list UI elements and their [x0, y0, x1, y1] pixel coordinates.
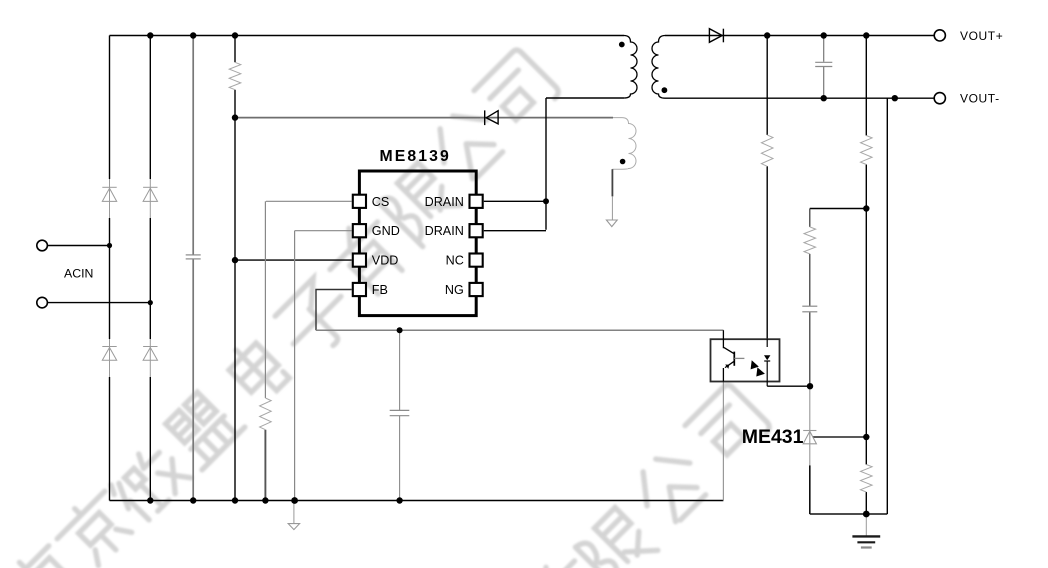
node bottom rail / startup column — [232, 497, 238, 503]
node top rail / bulk cap — [190, 32, 196, 38]
node secondary ground — [863, 511, 870, 518]
wire VOUT- return column — [886, 98, 888, 514]
wire reference cathode vertical — [809, 386, 811, 430]
wire VOUT- rail — [665, 97, 934, 99]
wire VOUT+ rail — [665, 35, 934, 37]
watermark line 2: second diagonal repeat — [516, 383, 772, 568]
svg-text:VOUT-: VOUT- — [960, 92, 1000, 106]
wire feedback divider column — [865, 36, 867, 515]
diode D3 bridge lower-left — [102, 347, 116, 361]
node bottom rail / bulk cap — [190, 497, 196, 503]
resistor R3 feedback divider upper — [861, 136, 873, 165]
transformer T1 primary winding — [624, 36, 637, 99]
svg-text:DRAIN: DRAIN — [425, 195, 464, 209]
node ACIN bottom junction — [148, 300, 153, 305]
wire drain node vertical — [545, 98, 547, 230]
svg-text:VOUT+: VOUT+ — [960, 29, 1003, 43]
wire bottom rail primary ground — [110, 500, 724, 502]
wire ACIN bottom terminal lead — [48, 302, 151, 304]
node top rail / bridge right — [147, 32, 153, 38]
resistor R2 opto bias — [761, 135, 773, 166]
node VOUT+ / divider — [863, 32, 869, 38]
pin NG — [470, 283, 483, 296]
wire thinning at bridge diodes — [108, 179, 152, 377]
wire FB compensation cap column — [399, 330, 401, 500]
diode D1 bridge upper-left — [102, 187, 116, 201]
node VOUT+ / opto bias — [764, 32, 770, 38]
transformer T1 primary phase dot — [619, 42, 625, 48]
optocoupler U2 phototransistor — [723, 330, 734, 381]
node bottom rail / IC ground — [291, 497, 298, 504]
wire startup resistor column — [234, 36, 236, 501]
wire compensation branch column — [809, 209, 811, 387]
svg-text:ACIN: ACIN — [64, 267, 93, 281]
diode D2 bridge upper-right — [143, 187, 157, 201]
wire aux supply horizontal — [235, 117, 613, 119]
terminal ACIN top — [37, 240, 48, 251]
optocoupler U2 emission arrow 2 — [756, 367, 765, 376]
svg-text:FB: FB — [372, 283, 388, 297]
node bottom rail / bridge right — [147, 497, 153, 503]
resistor R6 current sense — [260, 398, 272, 430]
pin FB — [353, 283, 366, 296]
wire opto LED cathode to reference — [767, 385, 810, 387]
wire opto emitter return — [722, 382, 724, 501]
node aux supply tap — [232, 114, 238, 120]
wire aux winding return — [611, 169, 613, 196]
capacitor C2 FB compensation — [390, 410, 410, 415]
transformer T1 auxiliary phase dot — [620, 159, 626, 165]
watermark line 1: nanjing micro one electronics text diagonal — [0, 48, 561, 568]
terminal VOUT+ — [934, 30, 945, 41]
node DRAIN junction — [543, 198, 549, 204]
wire opto LED bias column — [766, 36, 768, 340]
pin VDD — [353, 254, 366, 267]
resistor R1 startup — [229, 62, 241, 89]
node VDD tap — [232, 257, 238, 263]
diode D5 aux rectifier — [485, 110, 498, 125]
capacitor C1 bulk — [186, 255, 201, 259]
wire ME431 reference tap — [813, 436, 866, 438]
node FB cap top — [397, 327, 403, 333]
wire FB pin bend — [316, 290, 352, 331]
node divider tap — [863, 205, 869, 211]
node VOUT- / return column — [892, 95, 898, 101]
node ACIN top junction — [107, 243, 112, 248]
terminal ACIN bottom — [37, 297, 48, 308]
svg-text:NC: NC — [446, 254, 464, 268]
svg-text:NG: NG — [445, 283, 464, 297]
wire GND pin to ground rail — [295, 231, 352, 501]
wire top rail primary — [110, 35, 625, 37]
wire sense resistor lower lead — [264, 430, 266, 501]
transformer T1 auxiliary winding — [612, 118, 636, 170]
node opto cathode / reference — [807, 383, 813, 389]
wire DRAIN pin 2 — [484, 230, 546, 232]
shunt reference ME431 symbol — [803, 431, 816, 444]
svg-text:VDD: VDD — [372, 254, 399, 268]
wire second bridge column — [149, 36, 151, 501]
wire primary bottom to drain — [546, 97, 624, 99]
wire DRAIN pin 1 — [484, 200, 546, 202]
wire reference anode vertical — [809, 444, 811, 466]
IC ME8139 body — [359, 171, 476, 316]
optocoupler U2 body — [711, 339, 780, 381]
transformer T1 secondary winding — [652, 36, 665, 99]
diode D6 output rectifier — [709, 29, 723, 43]
ground arrow primary — [293, 501, 295, 524]
wire ACIN top terminal lead — [48, 245, 110, 247]
wire VDD horizontal — [235, 259, 352, 261]
node VOUT+ / output cap — [821, 32, 827, 38]
capacitor C4 compensation — [802, 306, 817, 312]
wire FB to optocoupler long run — [316, 329, 723, 331]
wire secondary ground rail — [810, 513, 888, 515]
ground arrow aux winding — [606, 220, 617, 227]
transformer T1 secondary phase dot — [662, 87, 668, 93]
wire bulk cap column — [192, 36, 194, 501]
diode D4 bridge lower-right — [143, 347, 157, 361]
pin CS — [353, 195, 366, 208]
svg-text:GND: GND — [372, 224, 400, 238]
pin NC — [470, 254, 483, 267]
pin GND — [353, 224, 366, 237]
node top rail / startup resistor — [232, 32, 238, 38]
resistor R5 feedback divider lower — [861, 465, 873, 493]
node VOUT- / output cap — [821, 95, 827, 101]
node bottom rail / FB cap — [396, 497, 402, 503]
wire CS pin to sense resistor — [265, 201, 351, 398]
wire output cap column — [823, 36, 825, 99]
svg-text:CS: CS — [372, 195, 390, 209]
optocoupler U2 base stub — [734, 357, 744, 359]
node reference cathode — [863, 434, 869, 440]
optocoupler U2 LED — [764, 339, 770, 386]
wire divider tap horizontal — [810, 208, 867, 210]
wire left bridge column — [109, 36, 111, 501]
capacitor C3 output filter — [815, 62, 832, 66]
pin DRAIN 1 — [470, 195, 483, 208]
svg-text:ME8139: ME8139 — [380, 148, 451, 165]
svg-text:DRAIN: DRAIN — [425, 224, 464, 238]
ground secondary — [865, 514, 867, 536]
svg-text:ME431: ME431 — [742, 426, 804, 448]
optocoupler U2 emission arrow 1 — [751, 360, 759, 369]
node bottom rail / sense resistor — [262, 497, 268, 503]
terminal VOUT- — [934, 93, 945, 104]
pin DRAIN 2 — [470, 224, 483, 237]
resistor R4 compensation — [804, 227, 816, 254]
